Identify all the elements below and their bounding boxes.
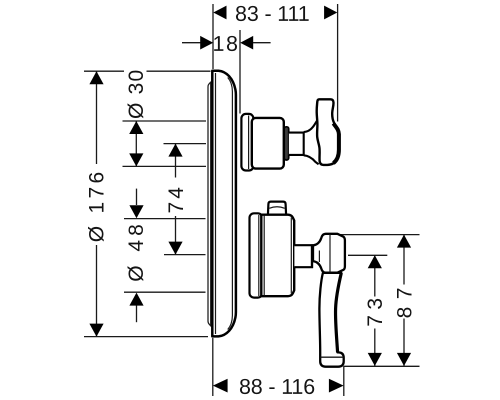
svg-text:Ø 48: Ø 48	[125, 220, 148, 282]
dim arrow down to top line	[129, 205, 143, 218]
svg-text:74: 74	[165, 184, 188, 213]
cartridge body rib	[263, 216, 265, 296]
extension line lever tip right (R3)	[344, 365, 420, 367]
extension line bottom lever front (V5)	[343, 366, 345, 396]
cartridge top port	[268, 202, 286, 215]
extension line knob bottom (T4)	[123, 165, 207, 167]
knob stem	[289, 133, 304, 155]
lever tip cap line	[321, 356, 344, 358]
dim tail right	[253, 42, 271, 44]
svg-text:18: 18	[213, 32, 240, 56]
svg-text:Ø 176: Ø 176	[86, 169, 109, 243]
dim arrow up to bottom line	[129, 293, 143, 306]
dim arrow right	[324, 6, 337, 20]
extension line lower axis (T6)	[164, 254, 206, 256]
svg-text:83 - 111: 83 - 111	[235, 2, 310, 26]
dim arrow up	[168, 144, 182, 157]
cartridge front line	[290, 218, 292, 294]
dim tail left	[182, 42, 201, 44]
knob sleeve inner line	[248, 116, 250, 170]
knob hub flare lower	[304, 155, 319, 164]
dim arrow down	[168, 242, 182, 255]
plate inner front arc	[228, 78, 233, 330]
dim line segments	[403, 235, 405, 366]
dim tail above	[136, 189, 138, 205]
dim arrow left	[213, 6, 226, 20]
svg-text:Ø 30: Ø 30	[125, 69, 148, 119]
lever stem end edge	[311, 244, 313, 268]
extension line lever axis right (R2)	[348, 254, 387, 256]
dim arrow down	[89, 324, 103, 337]
dim arrow down	[129, 153, 143, 166]
dim line segments	[175, 144, 177, 255]
plate rim strip (behind)	[208, 82, 211, 326]
knob cylinder	[252, 118, 284, 169]
dim line segments	[96, 71, 98, 336]
cartridge body	[261, 215, 294, 297]
extension line top knob front (V3)	[337, 4, 339, 122]
cross handle grip	[317, 99, 339, 165]
extension line sleeve top (T5)	[124, 218, 206, 220]
svg-text:87: 87	[394, 280, 417, 318]
dim arrow up	[129, 121, 143, 134]
lever hub neck ring	[318, 251, 320, 263]
knob hub flare upper	[304, 121, 317, 132]
dim arrow left (pointing right)	[200, 36, 213, 50]
escutcheon plate body	[212, 71, 236, 337]
grip right shadow	[333, 123, 339, 163]
lever stem	[294, 245, 312, 267]
svg-text:88 - 116: 88 - 116	[239, 375, 315, 399]
extension line sleeve bottom (T7)	[124, 291, 206, 293]
lever (handle)	[319, 273, 343, 367]
cartridge top port shoulder arc	[269, 207, 284, 209]
extension line top plate front (V2)	[239, 30, 241, 114]
dim arrow left (pointing left)	[213, 379, 228, 393]
extension line knob top (T2)	[123, 120, 207, 122]
extension line knob axis (T3)	[164, 143, 207, 145]
extension line hub top right (R1)	[337, 234, 420, 236]
lever right shadow	[336, 273, 342, 353]
dim arrow up	[89, 71, 103, 84]
knob cap dark band	[284, 127, 289, 160]
dim line segments	[374, 255, 376, 366]
dim arrow up	[397, 235, 411, 248]
knob sleeve flange	[241, 114, 253, 171]
dim arrow down	[368, 353, 382, 366]
lever hub	[313, 234, 345, 273]
dim arrow down	[397, 353, 411, 366]
extension line plate top (T1)	[84, 70, 211, 72]
lever hub inner line	[329, 234, 331, 272]
cartridge sleeve flange	[250, 213, 263, 297]
extension line top plate back (V1)	[212, 4, 214, 69]
dim tail below	[136, 306, 138, 323]
cartridge sleeve inner line	[258, 215, 260, 296]
plate inner back line	[215, 73, 217, 334]
dim arrow right (pointing right)	[329, 379, 344, 393]
dim arrow up	[368, 255, 382, 268]
extension line bottom plate back (V4)	[212, 338, 214, 396]
svg-text:73: 73	[364, 292, 387, 326]
extension line plate bottom (T8)	[84, 336, 208, 338]
dim line	[135, 121, 137, 166]
dim arrow right (pointing left)	[240, 36, 253, 50]
